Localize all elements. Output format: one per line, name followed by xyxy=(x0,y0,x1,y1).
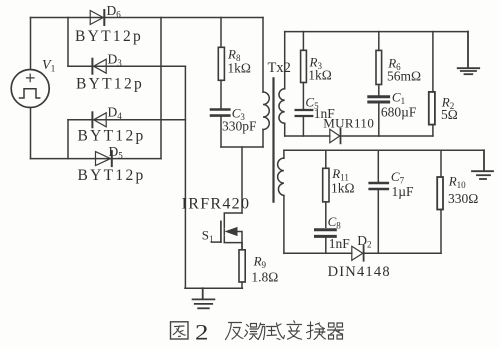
wire R8 branch top xyxy=(220,18,222,48)
svg-text:BYT12p: BYT12p xyxy=(78,167,146,184)
char ji (stir) xyxy=(245,323,265,340)
wire R6 to C1 xyxy=(378,85,380,96)
wire MUR110 anode xyxy=(285,135,330,137)
wire C5 bottom xyxy=(302,117,304,136)
wire R2 branch xyxy=(432,32,434,92)
svg-text:Tx2: Tx2 xyxy=(268,60,291,76)
wire lower secondary bottom lead xyxy=(283,196,285,254)
svg-text:R9: R9 xyxy=(253,254,267,271)
svg-text:1kΩ: 1kΩ xyxy=(308,68,332,83)
svg-text:V1: V1 xyxy=(42,58,56,75)
transformer lower secondary winding xyxy=(278,158,284,195)
svg-text:1kΩ: 1kΩ xyxy=(227,61,251,76)
wire bottom wire xyxy=(185,287,242,289)
svg-text:DIN4148: DIN4148 xyxy=(328,264,391,280)
char bian (change) xyxy=(287,321,302,339)
wire lower rail xyxy=(284,149,484,151)
wire R3 branch xyxy=(302,32,304,51)
svg-text:BYT12p: BYT12p xyxy=(78,128,146,145)
wire R11 branch xyxy=(325,150,327,168)
diode D6 xyxy=(90,10,104,25)
resistor R9 xyxy=(239,250,245,282)
resistor R11 xyxy=(323,168,329,202)
svg-text:IRFR420: IRFR420 xyxy=(182,196,251,213)
svg-text:BYT12p: BYT12p xyxy=(75,28,143,45)
char fan (anti) xyxy=(226,323,244,340)
svg-text:S1: S1 xyxy=(202,228,214,245)
wire C1 bottom xyxy=(378,103,380,136)
svg-text:D3: D3 xyxy=(108,52,123,69)
wire R9 bottom xyxy=(241,282,243,288)
wire primary bottom lead xyxy=(262,130,264,148)
ground 3 bottom xyxy=(193,288,215,308)
wire bottom rail left xyxy=(284,252,352,254)
wire V1 bottom lead xyxy=(30,108,32,159)
capacitor C3 xyxy=(211,110,229,116)
svg-text:56mΩ: 56mΩ xyxy=(387,69,421,84)
svg-text:D2: D2 xyxy=(357,233,371,250)
svg-text:D6: D6 xyxy=(107,3,122,20)
wire drain drop xyxy=(241,147,243,213)
char huan (exchange) xyxy=(307,322,326,340)
wire top rail xyxy=(31,17,264,19)
svg-text:5Ω: 5Ω xyxy=(441,107,458,122)
wire C8 bottom xyxy=(325,238,327,253)
diode MUR110 xyxy=(330,129,341,144)
wire bottom rail right xyxy=(364,252,441,254)
wire vertical x185 xyxy=(184,66,186,288)
wire R2 bottom vertical xyxy=(432,125,434,136)
wire R3 to C5 xyxy=(302,83,304,110)
char qi (device) xyxy=(328,323,344,339)
wire upper secondary top lead xyxy=(284,32,286,89)
resistor R10 xyxy=(437,177,443,210)
svg-text:1kΩ: 1kΩ xyxy=(331,181,355,196)
svg-text:C8: C8 xyxy=(328,214,342,231)
caption figure 2 flyback converter xyxy=(171,320,344,345)
diode D5 xyxy=(96,151,112,166)
resistor R6 xyxy=(376,50,382,84)
wire C3 bottom xyxy=(220,117,222,147)
wire C7 bottom xyxy=(377,190,379,253)
diode D2 xyxy=(352,246,364,261)
wire MUR110 cathode xyxy=(341,135,433,137)
transformer Tx2 primary winding xyxy=(263,92,269,130)
svg-text:1.8Ω: 1.8Ω xyxy=(251,270,278,285)
wire R6 branch xyxy=(378,32,380,51)
wire primary top lead xyxy=(262,18,264,93)
wire source to R9 xyxy=(241,243,243,250)
wire R10 bottom xyxy=(440,210,442,254)
wire loop2 left vertical xyxy=(67,120,69,159)
wire loop1 left vertical xyxy=(67,18,69,67)
svg-text:D5: D5 xyxy=(109,144,124,161)
svg-text:330pF: 330pF xyxy=(222,119,257,134)
wire upper rail xyxy=(285,31,468,33)
svg-text:1nF: 1nF xyxy=(329,236,351,251)
transformer core xyxy=(272,78,274,201)
wire snubber bottom xyxy=(221,146,263,148)
wire D4 row xyxy=(68,119,185,121)
ground 1 top right xyxy=(458,32,480,75)
diode D4 xyxy=(92,112,106,127)
char shi (type) xyxy=(267,323,285,340)
resistor R8 xyxy=(218,47,224,80)
svg-text:BYT12p: BYT12p xyxy=(76,75,144,92)
resistor R3 xyxy=(301,50,307,82)
transistor Q S1 IRFR420 mosfet xyxy=(211,213,242,250)
capacitor C5 xyxy=(296,110,313,116)
wire V1 top lead xyxy=(30,18,32,70)
ground 2 right middle xyxy=(472,150,493,179)
diode D3 xyxy=(92,59,106,74)
capacitor C7 xyxy=(370,183,388,189)
capacitor C8 xyxy=(316,230,336,237)
svg-text:2: 2 xyxy=(195,320,209,345)
char tu (figure) xyxy=(171,322,189,339)
svg-text:680µF: 680µF xyxy=(381,105,417,120)
wire D5 row xyxy=(31,158,162,160)
transformer upper secondary winding xyxy=(279,89,285,124)
wire lower secondary top lead xyxy=(283,150,285,158)
svg-text:1µF: 1µF xyxy=(392,184,415,199)
svg-text:330Ω: 330Ω xyxy=(448,191,478,206)
voltage source V1 xyxy=(11,70,49,108)
wire upper secondary bottom lead xyxy=(284,123,286,136)
wire D3 row xyxy=(68,65,185,67)
wire C7 branch xyxy=(377,150,379,181)
svg-text:R10: R10 xyxy=(448,174,466,191)
wire vertical x161 xyxy=(160,18,162,159)
wire R10 branch xyxy=(440,150,442,177)
resistor R2 xyxy=(429,92,435,125)
svg-text:D4: D4 xyxy=(108,105,123,122)
svg-text:MUR110: MUR110 xyxy=(323,115,374,130)
wire R8 to C3 xyxy=(220,80,222,108)
capacitor C1 xyxy=(369,97,389,102)
wire R11 to C8 xyxy=(325,202,327,227)
